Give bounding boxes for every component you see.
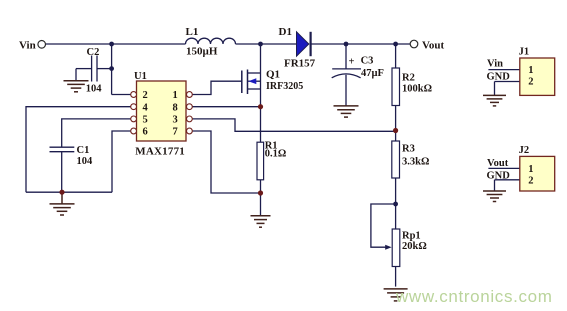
svg-text:47µF: 47µF <box>361 68 384 79</box>
svg-text:C1: C1 <box>77 145 90 156</box>
svg-text:Vin: Vin <box>487 58 503 69</box>
svg-text:4: 4 <box>143 102 149 113</box>
svg-text:GND: GND <box>487 170 511 181</box>
svg-text:5: 5 <box>143 115 148 126</box>
svg-text:7: 7 <box>173 127 178 138</box>
svg-text:2: 2 <box>528 176 533 187</box>
svg-text:J2: J2 <box>519 145 530 156</box>
svg-text:MAX1771: MAX1771 <box>135 146 185 158</box>
svg-text:R3: R3 <box>402 144 415 155</box>
svg-text:8: 8 <box>173 102 178 113</box>
svg-text:3.3kΩ: 3.3kΩ <box>402 156 429 167</box>
svg-text:3: 3 <box>173 115 178 126</box>
svg-text:C3: C3 <box>361 56 374 67</box>
svg-text:Vin: Vin <box>19 40 36 52</box>
svg-text:6: 6 <box>143 127 148 138</box>
svg-text:J1: J1 <box>519 47 530 58</box>
svg-text:Rp1: Rp1 <box>402 231 421 242</box>
svg-text:R2: R2 <box>402 72 415 83</box>
svg-text:IRF3205: IRF3205 <box>266 81 303 92</box>
svg-text:150µH: 150µH <box>186 46 218 58</box>
svg-text:100kΩ: 100kΩ <box>402 83 432 94</box>
svg-text:GND: GND <box>487 72 511 83</box>
svg-text:Vout: Vout <box>422 39 445 51</box>
svg-text:Vout: Vout <box>487 158 509 169</box>
svg-text:www.cntronics.com: www.cntronics.com <box>395 287 553 306</box>
svg-text:U1: U1 <box>134 71 147 82</box>
svg-text:FR157: FR157 <box>284 58 316 70</box>
svg-text:1: 1 <box>173 90 178 101</box>
svg-text:2: 2 <box>143 90 148 101</box>
svg-text:2: 2 <box>528 77 533 88</box>
svg-text:Q1: Q1 <box>266 69 280 81</box>
svg-text:1: 1 <box>528 164 533 175</box>
svg-text:+: + <box>349 57 355 68</box>
svg-text:D1: D1 <box>279 26 292 38</box>
svg-text:1: 1 <box>528 65 533 76</box>
svg-text:104: 104 <box>86 84 103 95</box>
svg-text:0.1Ω: 0.1Ω <box>265 149 287 160</box>
svg-text:L1: L1 <box>186 26 199 38</box>
svg-text:C2: C2 <box>87 47 100 58</box>
svg-text:104: 104 <box>77 156 94 167</box>
svg-text:20kΩ: 20kΩ <box>402 241 427 252</box>
